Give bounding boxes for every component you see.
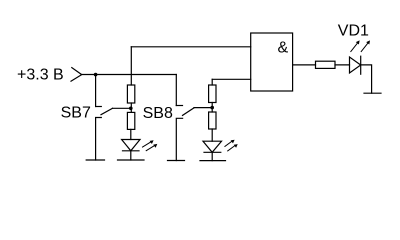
- LED VD1 cathode bar: [360, 56, 362, 74]
- LED HL2 emission arrow 1: [225, 140, 235, 147]
- LED HL1 emission arrow 2: [146, 144, 157, 151]
- svg-text:&: &: [278, 39, 289, 56]
- LED HL1 emission arrow 1: [143, 140, 154, 147]
- wire R1 bottom to R2 top through node A: [130, 103, 132, 112]
- node A junction dot between R1 and R2: [129, 107, 133, 111]
- ground bar below SB7: [86, 159, 104, 161]
- ground bar below LED HL2: [200, 160, 226, 162]
- node B junction dot between R3 and R4: [210, 106, 214, 110]
- switch SB8 lower fixed contact tick: [176, 118, 182, 160]
- ground bar below SB8: [168, 160, 185, 162]
- resistor R4: [209, 112, 216, 129]
- resistor R5 (output series): [316, 61, 336, 68]
- wire LED HL1 to ground: [130, 151, 132, 160]
- ground bar below LED HL1: [118, 159, 145, 161]
- wire R5 to LED VD1: [335, 64, 350, 66]
- resistor R1: [127, 85, 134, 103]
- wire SB8 arm to node B: [194, 107, 212, 109]
- switch SB7 upper fixed contact tick: [96, 106, 102, 108]
- LED VD1 emission arrow 1: [351, 40, 360, 51]
- LED HL2 triangle: [203, 141, 222, 152]
- wire AND input 1 horizontal to gate: [131, 46, 250, 48]
- svg-text:+3.3 В: +3.3 В: [17, 67, 64, 84]
- wire VD1 cathode to ground: [361, 65, 372, 93]
- svg-text:SB8: SB8: [143, 105, 173, 122]
- resistor R3: [209, 85, 216, 103]
- node junction J1 on +3.3V rail: [94, 73, 98, 77]
- wire junction J1 down to SB7 upper contact: [95, 75, 97, 107]
- node +3.3V input terminal chevron: [71, 68, 82, 82]
- wire +3.3V rail corner down to SB8 upper contact: [175, 75, 177, 106]
- LED VD1 triangle: [350, 57, 361, 73]
- LED VD1 emission arrow 2: [361, 40, 370, 51]
- switch SB8 upper fixed contact tick: [176, 105, 182, 107]
- resistor R2: [127, 112, 134, 129]
- wire R4 bottom to LED HL2: [211, 129, 213, 141]
- ground bar below VD1: [364, 92, 381, 94]
- op-amp U1 AND-gate body: [251, 33, 293, 91]
- svg-text:SB7: SB7: [61, 105, 91, 122]
- wire AND output: [293, 64, 316, 66]
- wire SB7 arm to node A: [113, 107, 131, 109]
- wire LED HL2 to ground: [211, 152, 213, 160]
- wire AND input 2 horizontal to gate: [212, 78, 251, 80]
- switch SB7 movable arm: [101, 108, 113, 114]
- wire AND input 2 vertical drop to R3: [211, 79, 213, 85]
- svg-text:VD1: VD1: [338, 23, 369, 40]
- switch SB8 movable arm: [183, 108, 195, 116]
- switch SB7 lower fixed contact tick: [96, 118, 102, 161]
- LED HL2 emission arrow 2: [228, 144, 238, 151]
- LED HL1 triangle: [122, 140, 140, 151]
- LED HL2 cathode bar: [204, 151, 221, 153]
- wire R3 bottom to R4 top through node B: [211, 103, 213, 113]
- LED HL1 cathode bar: [123, 150, 140, 152]
- wire +3.3V horizontal rail: [82, 74, 176, 76]
- wire R2 bottom to LED HL1: [130, 129, 132, 139]
- wire AND input 1 vertical drop to R1: [130, 47, 132, 85]
